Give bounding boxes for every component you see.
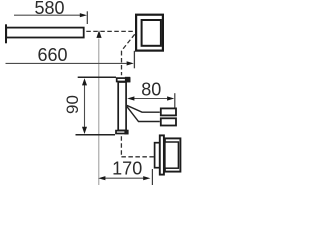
dim 90 vertical line — [84, 85, 86, 128]
outlet box outer — [165, 138, 181, 171]
arrow 80 right — [167, 96, 174, 100]
svg-text:90: 90 — [63, 95, 82, 114]
outlet plate — [160, 135, 164, 174]
outlet box inner — [165, 142, 179, 168]
wall bar body — [6, 28, 84, 38]
slide bar bottom cap — [116, 131, 128, 134]
top holder inner box — [142, 20, 161, 46]
arrow 170 left — [98, 176, 105, 180]
arrow up at bar axis — [96, 30, 101, 38]
long extension line down — [98, 39, 100, 186]
top holder outer box — [136, 15, 163, 51]
dim line 170 — [104, 177, 144, 179]
slide bar body — [118, 82, 126, 130]
extension line 170 — [151, 169, 153, 185]
arrow 660 right — [127, 61, 134, 65]
wall bar left cap — [5, 24, 7, 43]
slide bar bottom clamp block — [124, 130, 128, 135]
arrow 80 left — [127, 96, 134, 100]
holder arm upper — [127, 105, 160, 112]
dashed vertical to slide bar top — [121, 51, 123, 75]
holder arm lower — [127, 107, 160, 122]
dashed diagonal to slide bar — [121, 34, 134, 51]
svg-text:80: 80 — [141, 80, 161, 100]
dim line 80 — [133, 98, 167, 100]
dashed axis of bar — [86, 30, 134, 32]
dashed vertical below slide bar — [120, 136, 122, 157]
dim line 660 — [6, 62, 127, 64]
reference line top of slide bar — [78, 76, 116, 78]
reference line bottom of slide bar — [76, 134, 116, 136]
slide bar top cap — [117, 78, 130, 81]
arrow 90 up — [82, 78, 87, 85]
slide bar top clamp block — [125, 77, 130, 83]
holder rect upper — [161, 108, 176, 115]
outlet stub — [155, 143, 160, 168]
dim line 580 — [14, 14, 80, 16]
dashed horizontal to outlet — [121, 156, 154, 158]
extension line 580 — [86, 11, 88, 24]
arrow 170 right — [143, 176, 150, 180]
extension line 660 — [133, 51, 135, 69]
holder rect lower — [161, 118, 176, 125]
svg-text:660: 660 — [37, 45, 67, 65]
extension line 80 — [174, 93, 176, 108]
svg-text:170: 170 — [112, 159, 142, 179]
arrow 90 down — [82, 127, 87, 134]
arrow 580 right — [80, 13, 87, 17]
